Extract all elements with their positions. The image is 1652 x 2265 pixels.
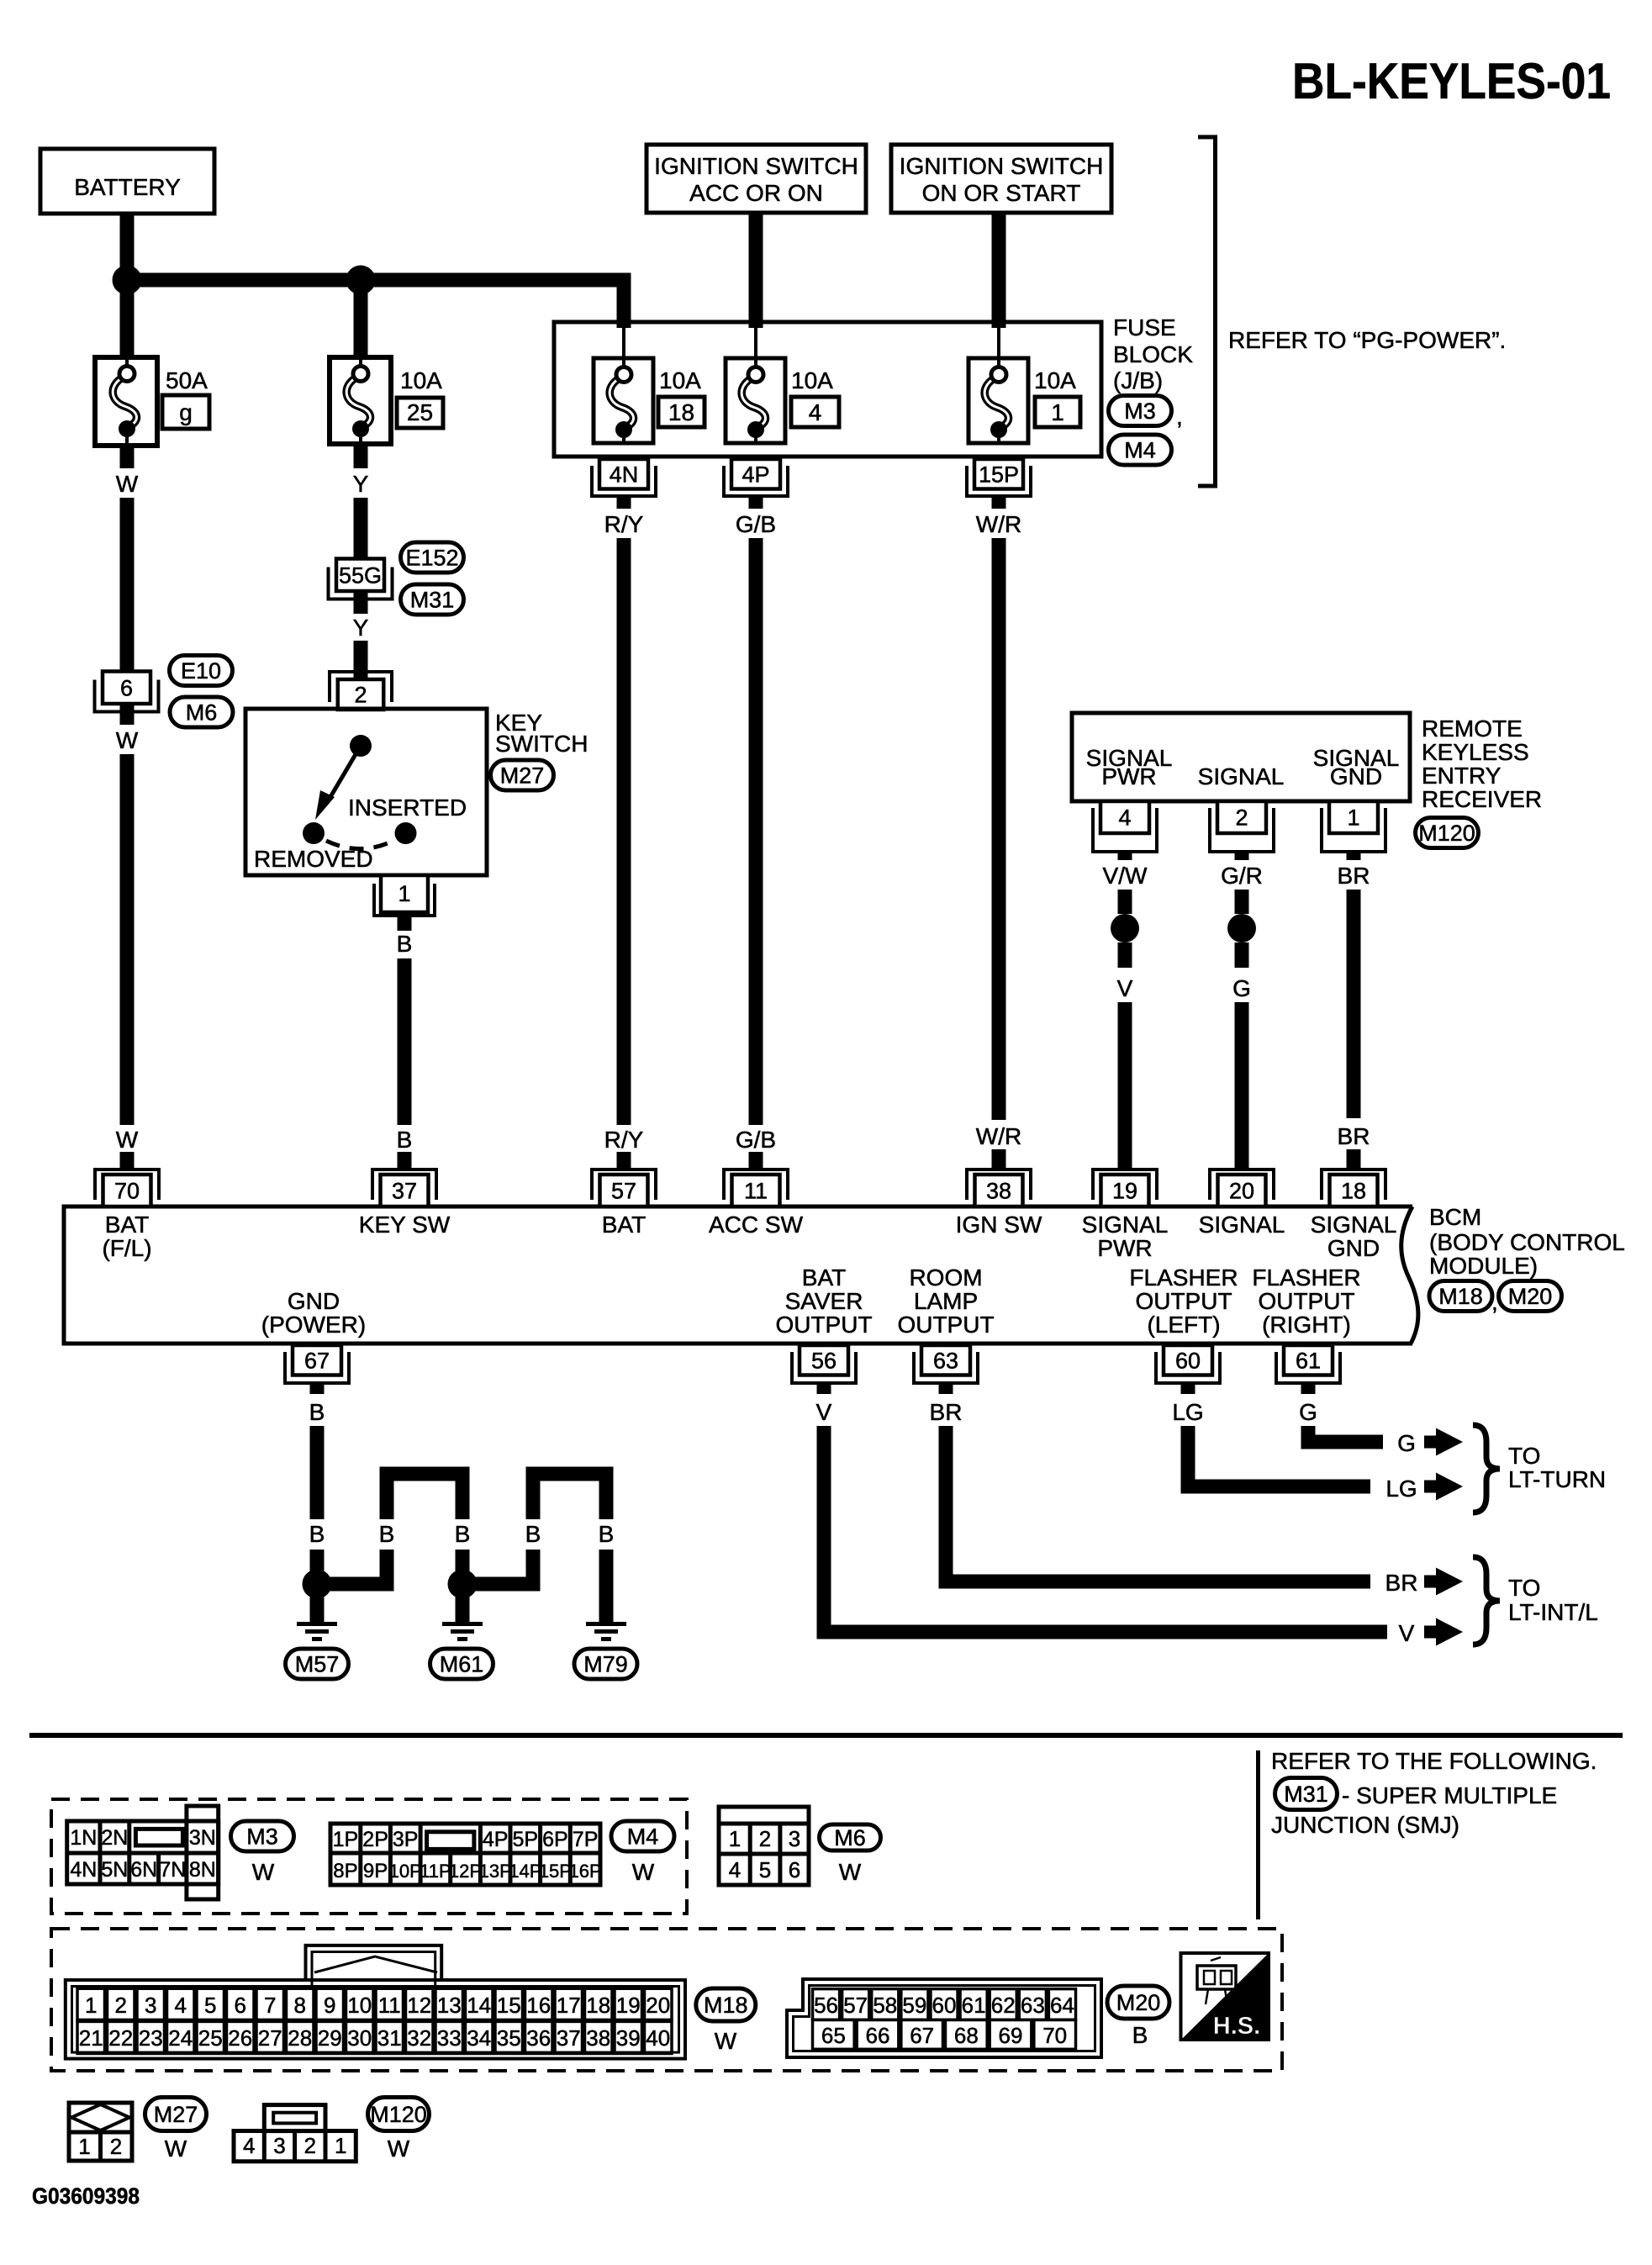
svg-text:24: 24 (168, 2025, 193, 2051)
label G/R (1221, 863, 1263, 889)
svg-text:1: 1 (1347, 805, 1359, 831)
connector face M6 (719, 1807, 809, 1885)
svg-text:6P: 6P (542, 1828, 568, 1851)
svg-text:25: 25 (407, 399, 433, 425)
label W under M27 (165, 2136, 187, 2162)
svg-text:23: 23 (139, 2025, 163, 2051)
svg-text:12P: 12P (449, 1861, 482, 1882)
svg-text:TO: TO (1508, 1575, 1540, 1601)
connector ref M6 oval (170, 697, 233, 727)
BCM pin 70 (95, 1169, 159, 1206)
svg-text:15: 15 (497, 1993, 521, 2018)
connector 4P (724, 459, 788, 496)
figure number G03609398 (32, 2183, 140, 2209)
hands-on H.S. view icon (1181, 1953, 1269, 2040)
BCM pin 38 (967, 1169, 1031, 1206)
connector ref E152 oval (401, 542, 464, 573)
label W under M6 (839, 1859, 862, 1885)
wire B long (398, 958, 412, 1125)
label 10A fuse 25 (400, 367, 442, 393)
junction dot A (113, 266, 142, 295)
wire dot1 to ground (310, 1584, 325, 1622)
svg-text:1: 1 (85, 1993, 97, 2018)
dashed group box M18 M20 (51, 1929, 1282, 2071)
svg-text:B: B (309, 1399, 325, 1425)
note REFER TO PG-POWER (1228, 327, 1506, 353)
label TO LT-TURN (1508, 1443, 1606, 1492)
staple2 right leg lower (599, 1550, 614, 1622)
svg-text:B: B (525, 1521, 541, 1547)
connector face M4 (330, 1824, 602, 1885)
svg-text:3: 3 (789, 1826, 800, 1851)
svg-text:6: 6 (120, 675, 133, 700)
wire stub below 4N (617, 494, 631, 509)
svg-text:16: 16 (526, 1993, 551, 2018)
svg-text:(POWER): (POWER) (261, 1312, 366, 1338)
BCM pin 37 (372, 1169, 436, 1206)
wire stub above pin 37 (398, 1152, 412, 1169)
label REMOVED (254, 846, 373, 872)
svg-text:M27: M27 (500, 763, 545, 789)
key switch arm with arrow (315, 746, 361, 820)
label W under M3 (252, 1859, 275, 1885)
label V/W (1103, 863, 1148, 889)
svg-text:8N: 8N (189, 1858, 216, 1882)
staple1 top bar (380, 1467, 470, 1481)
wire V/W stub (1118, 890, 1132, 914)
svg-text:6: 6 (789, 1857, 800, 1882)
svg-text:10A: 10A (400, 367, 442, 393)
svg-text:ENTRY: ENTRY (1422, 763, 1502, 789)
ground symbol M79 (586, 1622, 626, 1641)
svg-text:59: 59 (902, 1993, 926, 2018)
label W/R lower (976, 1123, 1021, 1149)
label 10A fuse 1 (1034, 367, 1076, 393)
label B upper (397, 931, 413, 957)
svg-text:57: 57 (611, 1179, 636, 1204)
connector face ref M4 oval (611, 1821, 674, 1851)
svg-text:(F/L): (F/L) (102, 1235, 151, 1261)
wire junction A to fuse 50A (120, 280, 135, 357)
svg-text:ACC OR ON: ACC OR ON (689, 180, 823, 206)
svg-text:G/B: G/B (736, 1127, 776, 1153)
svg-text:69: 69 (999, 2023, 1023, 2048)
svg-text:M31: M31 (1284, 1782, 1328, 1807)
connector face M3 (67, 1806, 219, 1899)
svg-text:W: W (839, 1859, 862, 1885)
connector ref M4 oval (1109, 435, 1172, 465)
label BR lower (1338, 1123, 1370, 1149)
label G arrow (1397, 1430, 1416, 1456)
connector ref M31 oval key switch (401, 584, 464, 615)
fuse id box g (162, 395, 209, 429)
arrow BR (1424, 1568, 1463, 1596)
svg-text:1: 1 (78, 2134, 90, 2159)
svg-text:3P: 3P (393, 1828, 419, 1851)
svg-text:3: 3 (145, 1993, 156, 2018)
svg-text:2: 2 (354, 683, 367, 708)
svg-text:M4: M4 (1124, 438, 1156, 463)
label G/B lower (736, 1127, 776, 1153)
wire stub below pin 2 (1235, 850, 1249, 860)
staple1 left leg upper (380, 1474, 394, 1519)
connector face ref M18 oval (696, 1988, 756, 2021)
svg-text:GND: GND (1327, 1235, 1380, 1261)
svg-text:10A: 10A (659, 367, 701, 393)
wire G/R stub (1235, 890, 1249, 914)
label BCM (BODY CONTROL MODULE) (1429, 1204, 1625, 1279)
svg-text:9: 9 (324, 1993, 335, 2018)
staple1 right leg upper (456, 1474, 470, 1519)
svg-text:TO: TO (1508, 1443, 1540, 1469)
svg-text:55G: 55G (339, 562, 382, 588)
ground symbol M57 (297, 1622, 337, 1641)
label B gnd col 2 (379, 1521, 395, 1547)
svg-text:60: 60 (932, 1993, 957, 2018)
footer M31 oval (1275, 1778, 1338, 1810)
note JUNCTION (SMJ) (1271, 1812, 1459, 1838)
wire stub below pin 56 (817, 1381, 831, 1394)
label BR arrow (1385, 1570, 1418, 1596)
svg-text:1: 1 (335, 2133, 346, 2158)
svg-text:PWR: PWR (1097, 1235, 1152, 1261)
svg-text:SWITCH: SWITCH (495, 731, 588, 757)
svg-text:68: 68 (954, 2023, 979, 2048)
label W under M120 (388, 2136, 410, 2162)
wire ignition ACC to fuse block (749, 213, 763, 328)
svg-text:11P: 11P (420, 1861, 451, 1882)
connector 1 key switch (374, 875, 435, 916)
label LG arrow (1385, 1476, 1417, 1502)
svg-text:BCM: BCM (1429, 1204, 1481, 1230)
svg-text:4: 4 (729, 1857, 741, 1882)
connector 6 SMJ (95, 672, 159, 712)
svg-text:SAVER: SAVER (785, 1288, 863, 1314)
svg-text:W: W (116, 1127, 139, 1153)
staple2 left leg upper (526, 1474, 541, 1519)
svg-text:22: 22 (108, 2025, 133, 2051)
svg-text:5N: 5N (101, 1858, 128, 1882)
wire V long (1118, 1002, 1132, 1169)
svg-text:14P: 14P (509, 1861, 541, 1882)
label 10A fuse 18 (659, 367, 701, 393)
svg-text:30: 30 (347, 2025, 372, 2051)
svg-text:35: 35 (497, 2025, 521, 2051)
svg-text:58: 58 (873, 1993, 897, 2018)
svg-text:14: 14 (467, 1993, 491, 2018)
key switch INSERTED terminal dot (395, 822, 417, 844)
svg-text:5: 5 (759, 1857, 771, 1882)
svg-text:20: 20 (646, 1993, 670, 2018)
ground ref M57 oval (286, 1649, 349, 1679)
svg-text:15P: 15P (539, 1861, 572, 1882)
key switch box (245, 709, 487, 875)
svg-text:B: B (1132, 2022, 1148, 2048)
fuse 10A 4 (726, 358, 785, 443)
svg-text:FLASHER: FLASHER (1252, 1264, 1360, 1291)
title BL-KEYLES-01 (1292, 53, 1611, 109)
svg-text:E152: E152 (405, 546, 458, 571)
svg-text:W: W (715, 2028, 737, 2054)
svg-text:JUNCTION (SMJ): JUNCTION (SMJ) (1271, 1812, 1459, 1838)
label R/Y upper (604, 511, 644, 537)
comma after M3 (1176, 404, 1183, 430)
svg-text:G: G (1397, 1430, 1416, 1456)
svg-text:2: 2 (1235, 805, 1248, 831)
svg-text:M120: M120 (370, 2102, 427, 2127)
svg-text:33: 33 (437, 2025, 462, 2051)
svg-text:21: 21 (79, 2025, 103, 2051)
BCM pin 61 (1276, 1345, 1340, 1383)
svg-text:INSERTED: INSERTED (348, 795, 467, 821)
brace TO LT-TURN (1473, 1425, 1500, 1513)
svg-text:37: 37 (557, 2025, 581, 2051)
svg-text:GND: GND (288, 1288, 340, 1314)
svg-text:7N: 7N (159, 1858, 186, 1882)
svg-text:6N: 6N (130, 1858, 157, 1882)
label ROOM LAMP OUTPUT (897, 1264, 994, 1338)
label FUSE BLOCK (J/B) (1113, 314, 1193, 393)
label BR upper (1338, 863, 1370, 889)
label SIGNAL GND (1313, 745, 1400, 789)
svg-text:PWR: PWR (1101, 763, 1156, 789)
svg-text:66: 66 (866, 2023, 890, 2048)
BCM pin 56 (792, 1345, 856, 1383)
svg-text:H.S.: H.S. (1213, 2013, 1260, 2040)
svg-text:W: W (165, 2136, 187, 2162)
svg-text:56: 56 (814, 1993, 838, 2018)
wire stub above pin 70 (120, 1152, 135, 1169)
svg-text:W/R: W/R (976, 1123, 1021, 1149)
svg-text:B: B (455, 1521, 471, 1547)
svg-text:(BODY CONTROL: (BODY CONTROL (1429, 1229, 1625, 1255)
svg-text:BLOCK: BLOCK (1113, 341, 1193, 367)
wire junction2 to staple2 (462, 1577, 541, 1592)
svg-text:V: V (1399, 1620, 1415, 1646)
wire stub above pin 38 (992, 1149, 1006, 1169)
wire stub below 4P (749, 494, 763, 509)
svg-text:OUTPUT: OUTPUT (1258, 1288, 1354, 1314)
svg-text:10A: 10A (1034, 367, 1076, 393)
svg-text:BL-KEYLES-01: BL-KEYLES-01 (1292, 53, 1611, 109)
key switch dashed travel arc (326, 841, 393, 849)
svg-text:2: 2 (115, 1993, 127, 2018)
svg-text:ROOM: ROOM (909, 1264, 982, 1291)
label INSERTED (348, 795, 467, 821)
svg-text:BATTERY: BATTERY (74, 174, 181, 200)
ignition switch ON OR START box (891, 145, 1111, 213)
key switch common terminal dot (350, 735, 372, 757)
svg-text:1: 1 (729, 1826, 741, 1851)
svg-text:2: 2 (304, 2133, 316, 2158)
svg-text:62: 62 (991, 1993, 1016, 2018)
wire below fuse g (120, 446, 135, 468)
bus wire horizontal (127, 273, 631, 288)
svg-text:REMOTE: REMOTE (1422, 715, 1523, 742)
connector face ref M120 oval (368, 2098, 430, 2131)
svg-text:M3: M3 (1124, 399, 1156, 424)
wire battery to bus (120, 213, 135, 280)
svg-text:37: 37 (392, 1179, 417, 1204)
label KEY SWITCH (495, 710, 588, 757)
battery box (40, 149, 214, 214)
svg-text:18: 18 (1341, 1179, 1366, 1204)
svg-text:11: 11 (744, 1179, 768, 1204)
svg-text:67: 67 (910, 2023, 934, 2048)
wire stub above pin 18 (1347, 1149, 1361, 1169)
dashed group box M3 M4 (51, 1799, 687, 1914)
connector face M20 (787, 1979, 1101, 2057)
label G below 61 (1299, 1399, 1317, 1425)
svg-text:W: W (252, 1859, 275, 1885)
svg-text:R/Y: R/Y (604, 1127, 644, 1153)
svg-text:W: W (388, 2136, 410, 2162)
connector ref M18 oval (1429, 1281, 1492, 1312)
wire W/R (992, 538, 1006, 1120)
fuse id box 4 (791, 397, 839, 427)
svg-text:61: 61 (1296, 1348, 1321, 1373)
lead fuse block to fuse 18 (622, 324, 625, 362)
svg-text:2: 2 (110, 2134, 122, 2159)
svg-text:LT-INT/L: LT-INT/L (1508, 1599, 1598, 1625)
BCM box outline (64, 1206, 1418, 1344)
connector face M120 (234, 2105, 356, 2162)
svg-text:12: 12 (407, 1993, 431, 2018)
connector face ref M3 oval (231, 1821, 294, 1851)
wire G long (1235, 1002, 1249, 1169)
label SIGNAL PWR bcm (1082, 1212, 1169, 1261)
label B under M20 (1132, 2022, 1148, 2048)
svg-text:1P: 1P (333, 1828, 359, 1851)
label 50A (166, 367, 208, 393)
svg-text:IGN SW: IGN SW (956, 1212, 1042, 1238)
svg-text:M79: M79 (583, 1652, 628, 1677)
svg-text:SIGNAL: SIGNAL (1198, 763, 1285, 789)
label B gnd col 3 (455, 1521, 471, 1547)
svg-text:4: 4 (243, 2133, 255, 2158)
BCM pin 18 (1322, 1169, 1385, 1206)
svg-text:1: 1 (1051, 399, 1064, 425)
svg-text:OUTPUT: OUTPUT (1135, 1288, 1232, 1314)
svg-text:56: 56 (811, 1348, 837, 1373)
comma between M18 M20 (1491, 1289, 1498, 1315)
connector face M18 (66, 1946, 685, 2059)
ground ref M61 oval (430, 1649, 493, 1679)
ground junction dot 1 (303, 1570, 332, 1599)
wire Y mid (354, 498, 368, 559)
svg-text:KEY SW: KEY SW (359, 1212, 451, 1238)
svg-text:V: V (816, 1399, 832, 1425)
svg-text:BR: BR (1338, 1123, 1370, 1149)
BCM pin 57 (592, 1169, 656, 1206)
svg-text:g: g (179, 399, 193, 425)
svg-text:60: 60 (1175, 1348, 1201, 1373)
label G/B upper (736, 511, 776, 537)
svg-text:7: 7 (264, 1993, 276, 2018)
svg-text:38: 38 (586, 2025, 610, 2051)
svg-text:(J/B): (J/B) (1113, 367, 1163, 393)
svg-text:B: B (599, 1521, 615, 1547)
fuse 10A 25 (330, 357, 391, 444)
svg-text:29: 29 (318, 2025, 342, 2051)
label 10A fuse 4 (791, 367, 833, 393)
svg-text:36: 36 (526, 2025, 551, 2051)
lead fuse block to fuse 1 (997, 324, 1000, 362)
svg-text:SIGNAL: SIGNAL (1311, 1212, 1397, 1238)
BCM pin 11 (724, 1169, 788, 1206)
svg-text:BAT: BAT (802, 1264, 846, 1291)
svg-text:8P: 8P (333, 1860, 357, 1882)
wire bus elbow down to fuse block (617, 273, 631, 329)
svg-text:40: 40 (646, 2025, 670, 2051)
label B below 67 (309, 1399, 325, 1425)
svg-text:19: 19 (616, 1993, 641, 2018)
label BAT SAVER OUTPUT (775, 1264, 872, 1338)
svg-text:BR: BR (1385, 1570, 1418, 1596)
svg-text:3: 3 (273, 2133, 285, 2158)
svg-text:1N: 1N (70, 1826, 97, 1850)
label ACC SW (709, 1212, 804, 1238)
BCM pin 67 (285, 1345, 349, 1383)
svg-text:M20: M20 (1116, 1990, 1161, 2015)
svg-text:25: 25 (198, 2025, 223, 2051)
wire Y to key switch (354, 641, 368, 679)
svg-text:16P: 16P (569, 1861, 602, 1882)
svg-text:G: G (1232, 975, 1251, 1001)
svg-text:Y: Y (353, 615, 369, 641)
label V arrow (1399, 1620, 1415, 1646)
connector ref M20 oval (1499, 1281, 1562, 1312)
svg-text:4: 4 (175, 1993, 187, 2018)
svg-text:M4: M4 (627, 1824, 659, 1850)
wire W long (120, 754, 135, 1125)
label B gnd col 5 (599, 1521, 615, 1547)
staple2 left leg lower (526, 1550, 541, 1592)
svg-text:18: 18 (668, 399, 694, 425)
fuse id box 25 (397, 398, 443, 428)
footer divider line (1256, 1750, 1260, 1919)
receiver pin 1 (1322, 801, 1385, 852)
note REFER TO THE FOLLOWING (1271, 1748, 1597, 1774)
svg-text:REMOVED: REMOVED (254, 846, 373, 872)
svg-text:GND: GND (1330, 763, 1382, 789)
ground junction dot 2 (448, 1570, 478, 1599)
fuse id box 18 (658, 397, 705, 427)
svg-text:V/W: V/W (1103, 863, 1148, 889)
svg-text:LG: LG (1172, 1399, 1203, 1425)
svg-text:BAT: BAT (105, 1212, 149, 1238)
fuse 50A g (95, 357, 157, 446)
svg-text:10: 10 (347, 1993, 372, 2018)
svg-text:E10: E10 (181, 658, 221, 684)
svg-text:67: 67 (304, 1348, 330, 1373)
svg-text:SIGNAL: SIGNAL (1199, 1212, 1285, 1238)
wire LG output (1181, 1426, 1371, 1494)
svg-text:13P: 13P (479, 1861, 512, 1882)
ground symbol M61 (442, 1622, 483, 1641)
label SIGNAL (1198, 763, 1285, 789)
svg-text:M31: M31 (410, 588, 455, 613)
wire BR output (939, 1426, 1371, 1589)
label GND (POWER) (261, 1288, 366, 1338)
svg-text:28: 28 (288, 2025, 312, 2051)
label SIGNAL GND bcm (1311, 1212, 1397, 1261)
svg-text:G03609398: G03609398 (32, 2183, 140, 2209)
label W under M4 (632, 1859, 655, 1885)
svg-text:Y: Y (353, 471, 369, 497)
svg-text:63: 63 (933, 1348, 958, 1373)
svg-text:3N: 3N (189, 1826, 216, 1850)
